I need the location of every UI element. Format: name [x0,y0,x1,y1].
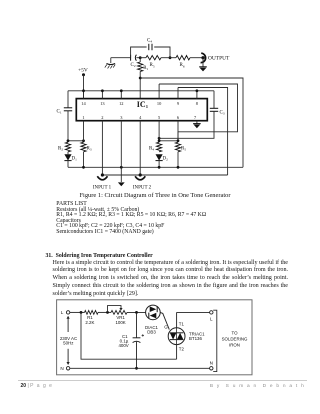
footer page number [21,383,53,389]
resistor R4 [149,142,162,152]
svg-text:L: L [61,310,64,315]
wire +5V down to pin 14 [83,75,85,99]
terminal N output [210,360,213,370]
wire pin6 down [177,121,179,141]
wire C3 to pin5 rail [159,111,214,138]
node bus pin13 [101,89,104,92]
caption Figure 1 [0,192,315,199]
svg-text:C2: C2 [131,63,136,68]
wire L to R1 [70,311,85,313]
wire pin7 stub [196,121,198,124]
wire pin3/ground tap [120,121,122,182]
label 230V AC 50Hz [60,316,77,365]
svg-text:G: G [164,324,168,329]
svg-text:100K: 100K [115,320,125,325]
svg-text:D1: D1 [72,157,78,162]
node INPUT1 [101,173,104,176]
wire pin12 to bus [120,91,122,99]
node bus pin14 [82,89,85,92]
svg-text:L: L [210,317,213,322]
svg-text:T2: T2 [179,347,185,352]
wire T2 [177,345,185,360]
ground G1 (left of C2) [105,58,115,69]
resistor R1 [138,58,149,72]
wire supply bus [68,90,214,92]
svg-text:TO: TO [231,331,238,336]
svg-text:+5V: +5V [78,68,88,74]
wire pin9 riser [177,88,179,99]
node bus pin12 [120,89,123,92]
wire T1 [177,312,185,327]
wire ground to C2 [111,57,131,59]
terminal N input [60,366,69,371]
wire bus right drop to C3 [213,91,215,109]
figure box [57,300,252,375]
svg-text:IRON: IRON [229,343,240,348]
wire T1 to L out [177,311,210,313]
node pin5/bracket-D junction [158,137,161,140]
label TO SOLDERING IRON [222,331,248,348]
ground G2 (under OUTPUT) [199,67,207,72]
load bracket [213,310,217,371]
svg-text:C3: C3 [220,111,225,116]
wire pin10 riser [158,84,160,99]
wire input line [102,174,227,176]
IC U1 body (7400) [76,99,207,121]
svg-text:DB3: DB3 [147,329,156,334]
wire left rail [68,140,84,142]
wire VR1 to DIAC [127,311,146,313]
wire L drop [81,312,177,359]
wire bracket B (pin10 to pin6 rail) [159,84,237,141]
wire bus left drop to C1 [67,91,69,108]
diode D1 [64,152,77,168]
terminal L output [210,311,213,322]
svg-text:R2: R2 [58,147,63,152]
resistor R5b [175,142,186,167]
label INPUT 2 [133,185,152,190]
wire C1 to left rail [67,111,69,141]
node bus pin8 [196,89,199,92]
paragraph [53,260,289,299]
ground G3 (pin 7) [193,124,201,129]
capacitor C3 [210,108,225,115]
svg-text:SOLDERING: SOLDERING [222,337,248,342]
node C1 on N rail [135,367,138,370]
svg-text:400V: 400V [118,343,128,348]
svg-text:N: N [210,360,213,365]
node left rail pin1 [82,139,85,142]
svg-text:50Hz: 50Hz [63,341,73,346]
label OUTPUT [208,56,230,62]
node bus R5b [177,166,180,169]
wire bracket C (pin9 to input line) [178,88,228,176]
svg-text:R5: R5 [150,63,155,68]
resistor R1 (2.2K) [85,311,99,325]
wire pin5 down [158,121,160,141]
svg-text:C1: C1 [57,110,62,115]
resistor R2 [58,142,71,152]
ground G4 (between inputs) [118,182,125,186]
wire N rail [70,367,210,369]
node C1 junction [135,311,138,314]
triac TRIAC1 BT136 [168,328,205,345]
svg-text:N: N [60,366,63,371]
node R1/bracket-A junction [139,77,142,80]
node bus ground tap [120,166,123,169]
svg-text:D2: D2 [163,157,169,162]
svg-text:2: 2 [101,115,103,120]
node left rail C1 [67,139,70,142]
svg-text:BT136: BT136 [189,336,202,341]
svg-text:C4: C4 [147,39,152,44]
svg-text:T1: T1 [179,322,185,327]
wire C4 branch right riser [154,47,170,58]
footer rule [18,379,307,382]
parts list [56,202,206,235]
node right rail pin6 [177,139,180,142]
wire pin1 down [83,121,85,141]
node L junction [80,311,83,314]
svg-text:OUTPUT: OUTPUT [208,56,230,62]
svg-text:R4: R4 [149,147,154,152]
svg-text:12: 12 [119,101,123,106]
wire bottom bus [68,166,243,168]
wire J2 to R6 [161,57,176,59]
node VR1 left junction [106,311,109,314]
svg-text:INPUT 2: INPUT 2 [133,185,152,190]
wire pin4 to input2 [139,121,141,175]
resistor R6 [176,56,190,69]
resistor R3 [81,142,92,167]
wire DIAC to gate [160,312,169,329]
label IC1 [137,100,149,109]
svg-text:R5: R5 [181,147,186,152]
node +5V terminal [82,73,85,76]
potentiometer VR1 (100K) [108,306,128,325]
wire R1 to VR1 [98,311,111,313]
labels IC top pin numbers 14-8 [81,101,198,106]
node J1 (C2/R5/R1 junction) [139,56,142,59]
svg-text:2.2K: 2.2K [85,320,94,325]
heading 31 [46,253,153,259]
wire R6 to output [190,57,203,59]
wire output to ground [202,58,204,67]
wire pin8 to bus [196,91,198,99]
diode D2 [156,154,169,167]
power +5V label [78,68,88,74]
label INPUT 1 [93,185,112,190]
svg-text:R3: R3 [87,147,92,152]
wire right rail [159,140,178,142]
diac DIAC1 DB3 [145,305,160,334]
node OUTPUT terminal [201,56,204,59]
node INPUT2 [139,173,142,176]
node right rail pin5 [158,139,161,142]
wire pin14 to bus [83,91,85,99]
capacitor C4 [147,39,152,51]
capacitor C1 (0.1u 400V) [118,312,144,368]
svg-text:INPUT 1: INPUT 1 [93,185,112,190]
wire R1 to pin 11 [139,72,141,99]
svg-text:R6: R6 [180,63,185,68]
svg-text:R1: R1 [143,66,148,71]
input jack 2 arc [135,176,145,180]
input jack 1 arc [97,176,107,180]
terminal L input [61,310,70,315]
labels IC bottom pin numbers 1-7 [82,115,197,120]
svg-text:1: 1 [82,115,84,120]
footer author [210,384,305,389]
node bus D2 [158,166,161,169]
capacitor C1 [57,108,73,115]
wire pin2 to input1 [101,121,103,175]
wire bracket A (R1 node around right to bottom bus) [140,78,243,167]
node J2 (R5/R6/C4 junction) [169,56,172,59]
output jack arc [201,53,206,62]
capacitor C2 [131,55,141,68]
wire C4 branch left riser [131,47,147,58]
wire pin13 to bus [101,91,103,99]
node bus R3 [82,166,85,169]
resistor R5 [140,56,161,69]
